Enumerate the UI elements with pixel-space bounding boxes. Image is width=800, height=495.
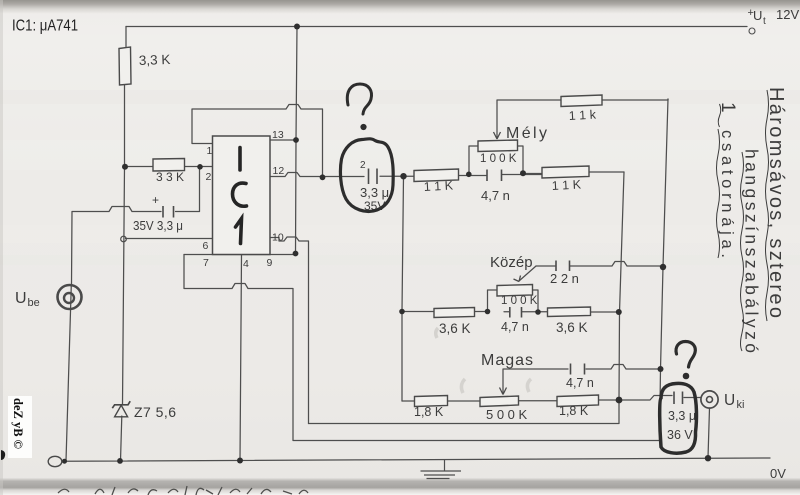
svg-text:be: be [28, 297, 40, 309]
svg-text:2 2 n: 2 2 n [550, 271, 579, 286]
svg-text:2: 2 [206, 171, 212, 183]
svg-text:9: 9 [267, 257, 273, 269]
svg-text:4,7 n: 4,7 n [566, 376, 594, 390]
svg-text:0V: 0V [770, 466, 786, 481]
svg-text:3,3 μ: 3,3 μ [360, 185, 389, 200]
svg-text:Mély: Mély [506, 125, 547, 142]
svg-text:t: t [763, 16, 766, 27]
svg-text:U: U [15, 290, 27, 307]
svg-text:5 0 0 K: 5 0 0 K [486, 407, 528, 422]
svg-text:1,8 K: 1,8 K [559, 404, 589, 418]
svg-text:1: 1 [207, 145, 213, 157]
svg-text:IC1: μA741: IC1: μA741 [12, 18, 78, 35]
svg-text:1 1 K: 1 1 K [423, 178, 454, 194]
svg-text:hangszínszabályzó: hangszínszabályzó [742, 149, 762, 353]
svg-text:4: 4 [243, 258, 249, 270]
svg-text:13: 13 [272, 129, 284, 141]
svg-text:1,8 K: 1,8 K [414, 405, 444, 419]
svg-text:3,6 K: 3,6 K [439, 321, 471, 336]
svg-text:3,6 K: 3,6 K [556, 320, 588, 335]
svg-text:10: 10 [272, 232, 284, 244]
svg-text:12V: 12V [776, 7, 799, 22]
svg-text:deZ yB ©: deZ yB © [11, 398, 25, 449]
svg-text:Magas: Magas [481, 352, 533, 369]
svg-text:U: U [724, 392, 735, 409]
svg-text:+: + [152, 193, 159, 207]
svg-text:1 0 0 K: 1 0 0 K [501, 295, 538, 307]
svg-text:3,3 μ: 3,3 μ [668, 409, 696, 423]
svg-text:4,7 n: 4,7 n [481, 188, 510, 203]
svg-text:3,3 K: 3,3 K [139, 52, 171, 68]
svg-text:ki: ki [737, 399, 745, 411]
svg-text:12: 12 [273, 165, 285, 177]
svg-text:6: 6 [203, 240, 209, 252]
svg-text:1 1 k: 1 1 k [568, 108, 597, 123]
svg-text:7: 7 [203, 257, 209, 269]
svg-text:Z7 5,6: Z7 5,6 [134, 404, 176, 420]
svg-text:2: 2 [360, 160, 366, 171]
svg-text:4,7 n: 4,7 n [501, 320, 529, 334]
svg-text:Közép: Közép [490, 254, 533, 271]
svg-text:35V 3,3 μ: 35V 3,3 μ [133, 218, 183, 233]
svg-text:csatornája.: csatornája. [718, 130, 736, 258]
svg-text:3 3 K: 3 3 K [156, 170, 184, 184]
svg-text:36 V: 36 V [667, 428, 693, 442]
svg-text:1 1 K: 1 1 K [551, 177, 582, 193]
svg-text:1 0 0 K: 1 0 0 K [480, 153, 517, 165]
svg-text:U: U [753, 8, 762, 23]
